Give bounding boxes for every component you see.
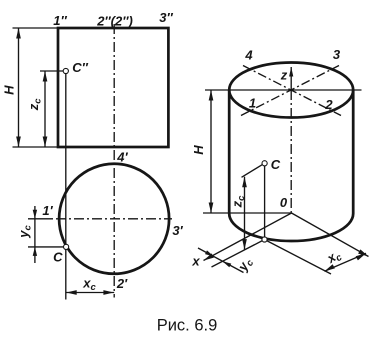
axon view: H bottom extension line to O <box>203 212 292 214</box>
axon view: y axis with arrow <box>292 213 369 257</box>
axon view: top ellipse of cylinder <box>229 63 353 118</box>
axon view: horizontal axis of top ellipse / H top extension <box>205 89 362 91</box>
axon view: cylinder right side line <box>352 90 355 214</box>
svg-text:x: x <box>191 254 200 269</box>
axon view: x_c dimension line with arrows <box>325 253 367 271</box>
svg-text:3′: 3′ <box>172 223 183 238</box>
front view: z_c extension line from C'' <box>40 70 63 72</box>
front view: projection line from C'' through C to x_c dimension <box>65 71 67 300</box>
svg-text:1: 1 <box>249 96 256 111</box>
axon view: z_c dimension line with arrows <box>244 177 246 250</box>
plan view: y_c dimension line with outside arrows <box>34 206 36 263</box>
svg-text:C: C <box>271 157 281 172</box>
axon view: cylinder left side line <box>228 90 231 214</box>
axon view: line through c parallel to x axis <box>212 240 265 268</box>
svg-text:Рис. 6.9: Рис. 6.9 <box>157 317 218 335</box>
front view: point C'' marker <box>63 68 68 73</box>
svg-text:2′: 2′ <box>116 276 128 291</box>
axon view: point c marker on bottom ellipse <box>262 237 267 242</box>
axon view: x axis with arrow <box>204 213 292 261</box>
svg-text:2″(2″): 2″(2″) <box>96 14 133 29</box>
plan view: x_c dimension line with arrows <box>66 292 114 294</box>
front view: H dimension extension lines <box>13 27 59 29</box>
svg-text:C″: C″ <box>72 60 88 75</box>
axon view: diagonal 4-2 (dash-dot) <box>243 66 341 116</box>
axon view: y_c dimension line with outside arrows <box>198 248 244 273</box>
axon view: line through c parallel to y axis <box>265 240 332 275</box>
axon view: point C marker <box>262 161 267 166</box>
front view rectangle (cylinder frontal projection) <box>58 28 168 147</box>
axon view: diagonal 1-3 (dash-dot) <box>241 66 339 116</box>
svg-text:H: H <box>191 145 206 155</box>
axon view: line C to c <box>264 166 266 237</box>
svg-text:4′: 4′ <box>116 150 128 165</box>
plan view: horizontal center line (dash-dot) <box>56 218 172 220</box>
svg-text:4: 4 <box>244 48 253 63</box>
front view: H dimension line with arrows <box>18 28 20 147</box>
axon view: z center line below ellipse center (dash-dot) <box>290 90 292 213</box>
axon view: z axis solid segment with arrow <box>290 67 292 90</box>
svg-text:3″: 3″ <box>159 10 173 25</box>
plan view: y_c extension lines <box>28 218 53 220</box>
axon view: slanted extension from C for z_c <box>242 165 263 178</box>
svg-text:z: z <box>280 68 288 83</box>
svg-text:1″: 1″ <box>53 13 67 28</box>
plan view: point C marker <box>64 244 69 249</box>
svg-text:3: 3 <box>333 47 341 62</box>
svg-text:1′: 1′ <box>42 203 53 218</box>
plan view circle (top projection of cylinder) <box>59 164 169 274</box>
svg-text:C: C <box>53 250 63 265</box>
axon view: bottom ellipse lower half <box>229 214 353 242</box>
svg-text:0: 0 <box>280 195 288 210</box>
axon view: H dimension line with arrows <box>210 90 212 213</box>
svg-text:H: H <box>2 85 17 95</box>
front view: z_c dimension line with arrows <box>44 71 46 147</box>
front view: vertical center line (axis, dash-dot) <box>113 24 115 298</box>
svg-text:2: 2 <box>324 97 333 112</box>
